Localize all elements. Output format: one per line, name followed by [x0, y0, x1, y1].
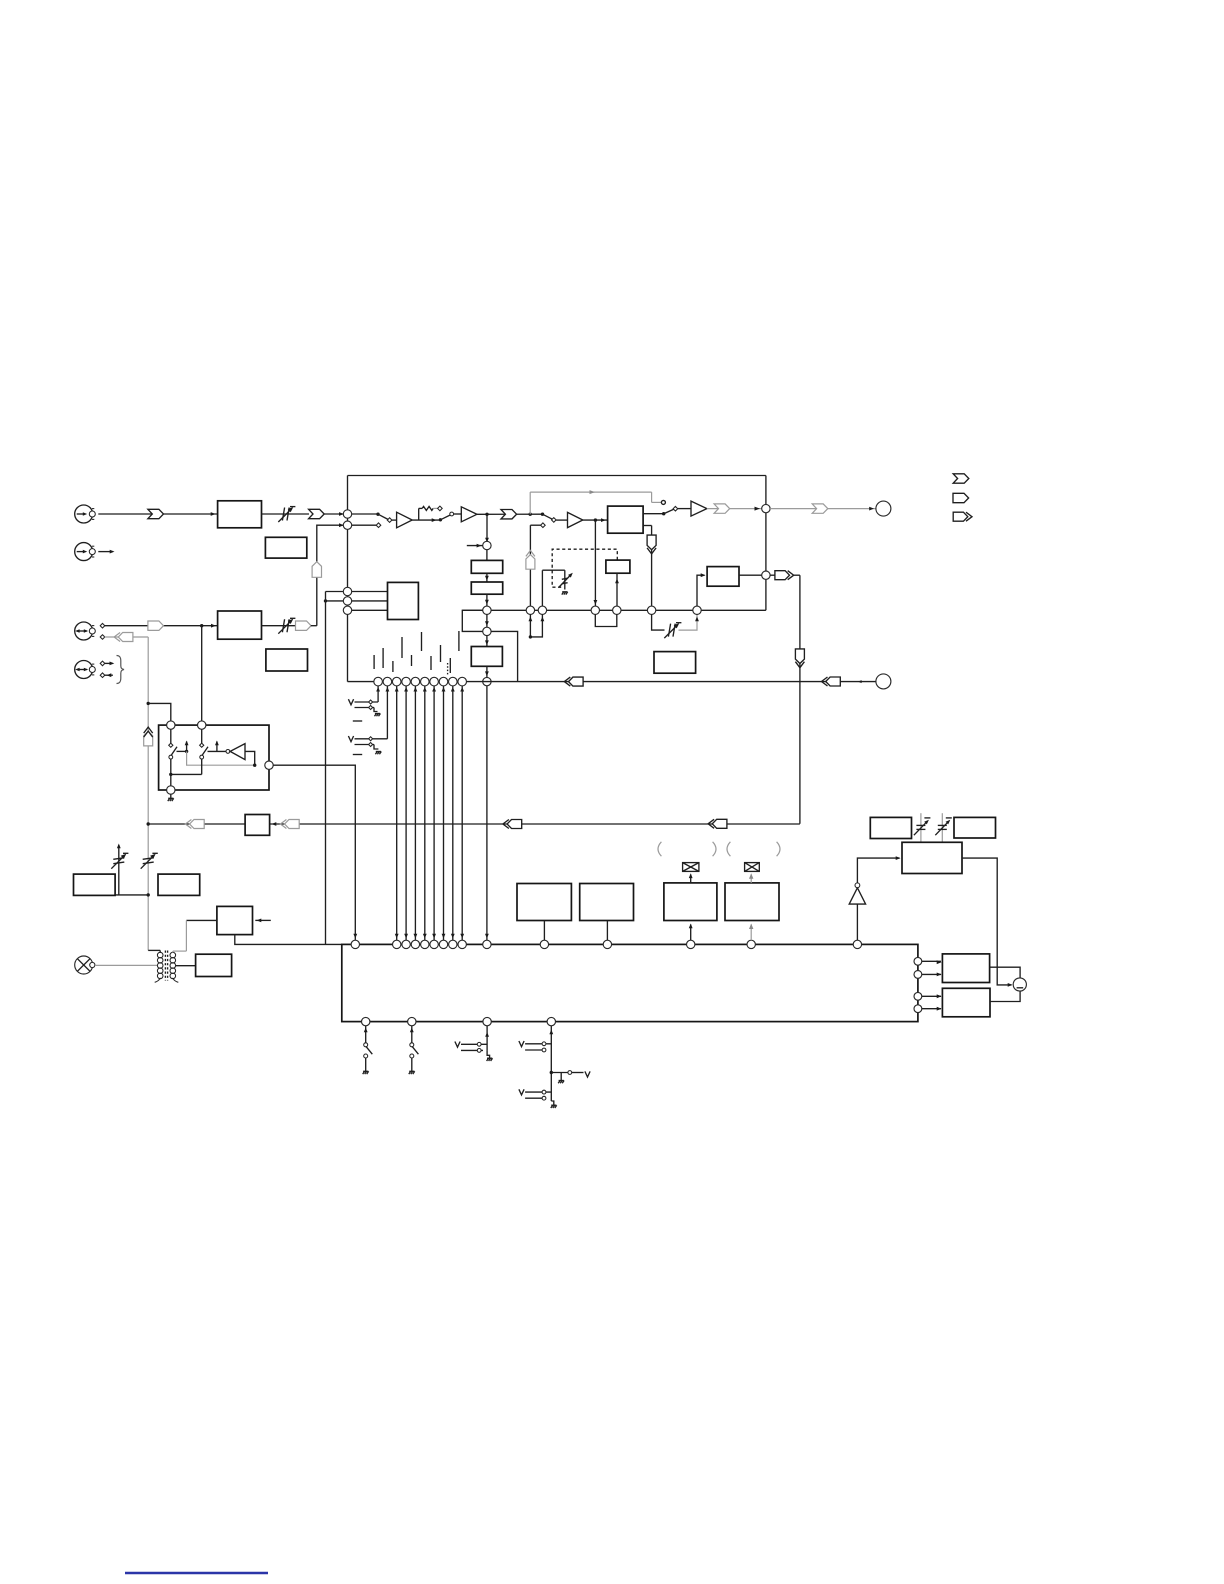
- block B4: [266, 649, 308, 671]
- output terminal T1: [876, 501, 891, 516]
- matrix sw2: [200, 729, 208, 759]
- bbox node t4: [421, 940, 429, 948]
- bbox node tB17: [747, 940, 755, 948]
- jack J2 stub: [98, 550, 114, 554]
- flag F9 down: [795, 649, 804, 668]
- wire to flag F8: [770, 574, 775, 576]
- block B6: [606, 560, 630, 573]
- wire B17 to X2: [749, 873, 753, 883]
- att loop left: [652, 615, 665, 631]
- block B14: [517, 884, 571, 921]
- flag F18: [708, 819, 727, 828]
- wire U1 out: [412, 518, 440, 522]
- flag F17: [503, 820, 522, 829]
- row681 up arrow 1: [376, 687, 380, 692]
- block B13: [196, 954, 232, 976]
- jack J3 top contact: [100, 623, 105, 628]
- row681 node c7: [430, 677, 439, 686]
- V switch 2 dash: [353, 754, 362, 756]
- wire to riser: [311, 625, 317, 627]
- att loop right: [679, 615, 699, 631]
- wire U3node to bus: [594, 520, 598, 606]
- bus wire 5: [432, 686, 436, 940]
- block B3: [218, 611, 262, 639]
- flag F19 up: [144, 727, 153, 746]
- wire to amp U3: [556, 519, 567, 521]
- wire mute drop: [529, 525, 531, 606]
- switch S2 throw: [450, 512, 454, 516]
- V switch 1: [348, 699, 378, 705]
- stub into V1: [467, 544, 483, 548]
- bus wire 3: [414, 686, 418, 940]
- switch S3 throw: [552, 518, 557, 523]
- bbox right node r3: [914, 992, 922, 1000]
- wire C1 to switch S1: [348, 513, 379, 515]
- switch S8 node: [550, 1071, 553, 1074]
- switch S6: [409, 1026, 419, 1074]
- V switch stub 2: [386, 686, 388, 739]
- flag F5: [812, 504, 828, 513]
- flag F1 on J1 wire: [148, 509, 164, 518]
- flag F10: [564, 677, 583, 686]
- bottom box: [342, 944, 918, 1021]
- node grey feedback tap: [529, 513, 532, 516]
- wire B3 to attenuator: [262, 625, 297, 627]
- block B16: [664, 883, 717, 921]
- record drop wire: [799, 575, 801, 824]
- legend flag type A: [953, 474, 969, 483]
- block B15: [580, 884, 634, 921]
- rail stub 2: [326, 600, 344, 602]
- grey feedback riser: [529, 492, 531, 514]
- switch S2 pole: [439, 515, 451, 522]
- jack J4 stub b: [105, 673, 113, 677]
- bbox right node r2: [914, 971, 922, 979]
- arrow into B9: [272, 822, 277, 826]
- row681 up arrow 2: [386, 687, 390, 692]
- switch box: [159, 725, 269, 790]
- wire amp base: [856, 904, 858, 940]
- bbox node t7: [449, 940, 457, 948]
- block DAC2: [471, 647, 502, 667]
- ground att mute: [562, 592, 568, 595]
- row681 node c6: [421, 677, 430, 686]
- op-amp U1: [397, 512, 413, 528]
- block B21: [954, 817, 996, 838]
- bbox right node r4: [914, 1005, 922, 1013]
- wire B12 left: [186, 920, 217, 951]
- bbox node t1: [393, 940, 401, 948]
- wire B14 stub: [543, 921, 545, 941]
- row2 stub diamond: [376, 523, 381, 528]
- switch S8 pair2: [519, 1089, 551, 1100]
- bbox node tV: [483, 940, 491, 948]
- inverter U5: [230, 744, 245, 760]
- big box top edge: [348, 475, 766, 477]
- rail node: [324, 599, 327, 602]
- att wire up: [117, 844, 121, 895]
- wire B5 out2: [643, 526, 652, 611]
- stub mark 4: [401, 637, 403, 658]
- row681 node c1: [374, 677, 383, 686]
- grey wire J3b: [105, 636, 149, 638]
- row681 node c4: [402, 677, 411, 686]
- mute loop node: [529, 635, 532, 638]
- big box right edge: [765, 476, 767, 611]
- grey feedback top wire: [530, 490, 651, 494]
- grey feedback contact: [661, 500, 665, 504]
- node box edge out2: [762, 571, 770, 579]
- bbox node tB15: [603, 940, 611, 948]
- stub mark 2: [382, 648, 384, 668]
- mute amp bubble: [855, 883, 860, 888]
- node trunk 1: [147, 702, 150, 705]
- legend flag type B: [953, 493, 969, 502]
- jack J4 contact b: [100, 673, 105, 678]
- matrix grey link: [187, 751, 255, 765]
- stub mark dotted: [447, 663, 449, 676]
- output terminal T2: [876, 674, 891, 689]
- V switch 1 ground: [374, 708, 380, 717]
- matrix sw2 drop: [201, 759, 203, 774]
- node box edge out1: [762, 504, 770, 512]
- input jack J1: [75, 505, 96, 523]
- flag F11: [148, 621, 164, 630]
- wire B12 bottom: [235, 935, 342, 945]
- wire r3 to B19: [922, 994, 942, 998]
- stub mark 3: [392, 661, 394, 672]
- node D1: [343, 587, 351, 595]
- variable attenuator AT4: [278, 618, 295, 633]
- parens marks: [658, 842, 780, 856]
- row681 node c3: [392, 677, 401, 686]
- switch S8 main: [549, 1026, 553, 1101]
- big box bottom edge segment left: [348, 609, 388, 611]
- transformer top right lead: [173, 951, 187, 953]
- wire J3 branch to box in2: [201, 626, 203, 721]
- variable attenuator AT5: [111, 853, 128, 868]
- jack J3 bottom contact: [100, 635, 105, 640]
- riser to row2: [317, 523, 344, 625]
- wire B19 out: [990, 991, 1020, 1002]
- jack J4 brace: [117, 656, 125, 684]
- block B5: [608, 506, 644, 533]
- wire B7 out: [739, 574, 762, 576]
- matrix sw2 bar: [215, 741, 219, 752]
- resistor R1: [419, 506, 438, 510]
- att arrow b: [935, 818, 952, 835]
- xbox X1: [683, 863, 699, 872]
- bus wire 7: [451, 686, 455, 940]
- node V2: [483, 627, 491, 635]
- V switch stub 1: [377, 686, 379, 702]
- variable attenuator AT3: [664, 623, 681, 638]
- node trunk 3: [147, 893, 150, 896]
- switch S3 pole: [541, 513, 553, 520]
- wire r2 to B18: [922, 973, 942, 977]
- wire U2 node drop: [485, 514, 489, 545]
- wire V to bottom box: [485, 686, 489, 940]
- bbox node tAmp: [853, 940, 861, 948]
- rail vertical: [325, 592, 327, 945]
- stub into B12: [255, 919, 270, 923]
- switch S8 ground: [551, 1101, 557, 1108]
- dotted box: [552, 549, 617, 587]
- matrix sw1: [169, 729, 177, 759]
- wire r4 to B19: [922, 1007, 942, 1011]
- wire to node C1: [324, 512, 344, 516]
- wire U3 to B5: [583, 518, 608, 522]
- wire B22 out: [962, 858, 1013, 987]
- jack J4 stub a: [105, 662, 115, 666]
- switch S8 branch: [551, 1071, 590, 1084]
- V switch 1 dash: [353, 720, 362, 722]
- grey trunk down: [147, 637, 149, 950]
- row681 up arrow 5: [414, 687, 418, 692]
- grey lamp wire: [95, 964, 157, 966]
- node D3: [343, 606, 351, 614]
- wire B16 to X1: [689, 873, 693, 883]
- minus terminal: [1013, 978, 1026, 991]
- input jack J2: [75, 543, 96, 561]
- V switch 2b: [355, 743, 375, 747]
- jack J4 contact a: [100, 661, 105, 666]
- mute amp U6: [849, 888, 865, 904]
- wire U2 out: [477, 513, 543, 515]
- node bus V: [483, 606, 491, 614]
- wire to att mute: [542, 570, 564, 589]
- wire B10 link: [115, 894, 148, 896]
- row681 node c9: [449, 677, 458, 686]
- op-amp U3: [568, 512, 583, 527]
- bbox node t0: [351, 940, 359, 948]
- box out node bottom: [167, 786, 175, 794]
- wire M2 up: [541, 570, 543, 606]
- row681 node c8: [439, 677, 448, 686]
- node bus A1: [647, 606, 655, 614]
- node bus B6: [613, 606, 621, 614]
- rail stub 1: [326, 591, 344, 593]
- switch S5: [363, 1026, 373, 1074]
- row681 up arrow 4: [404, 687, 408, 692]
- matrix sw2 link: [208, 750, 227, 752]
- inverter out: [245, 751, 256, 767]
- row681 node c2: [383, 677, 392, 686]
- node bus M1: [526, 606, 534, 614]
- mute loop: [529, 615, 545, 637]
- wire bus to B7: [697, 573, 706, 606]
- flag F6 down: [647, 535, 656, 554]
- bus wire 4: [423, 686, 427, 940]
- wire r1 to B18: [922, 960, 942, 964]
- big box left rail: [347, 476, 349, 682]
- bbox node b2: [408, 1017, 416, 1025]
- stub mark 7: [430, 656, 432, 670]
- node row681 V: [483, 677, 491, 685]
- legend flag type C: [953, 512, 972, 521]
- flag F14: [114, 633, 133, 642]
- wire to amp U4: [678, 508, 691, 510]
- bypass elbow left: [462, 610, 482, 631]
- bbox node t2: [402, 940, 410, 948]
- resistor bypass riser: [418, 508, 420, 520]
- block DAC: [388, 582, 419, 619]
- grey att wire a: [920, 813, 922, 842]
- variable attenuator AT1: [278, 507, 295, 522]
- bus wire 8: [460, 686, 464, 940]
- bbox node tB14: [540, 940, 548, 948]
- bypass elbow right: [491, 631, 517, 681]
- stub mark 10: [458, 631, 460, 651]
- flag F16: [280, 820, 299, 829]
- att arrow a: [914, 818, 931, 835]
- node C2: [343, 521, 351, 529]
- node U3 out: [594, 518, 597, 521]
- grey wire to output 1: [770, 507, 876, 511]
- switch S4 throw: [673, 506, 678, 511]
- bbox node b3: [483, 1017, 491, 1025]
- inverter bubble: [226, 750, 230, 754]
- row681 wire: [348, 680, 876, 683]
- bbox node b4: [547, 1017, 555, 1025]
- box ground: [168, 794, 174, 801]
- switch S7: [455, 1026, 493, 1061]
- wire J3 to B3: [105, 624, 218, 628]
- block B10: [74, 874, 116, 895]
- node U2 out: [485, 513, 488, 516]
- wire B5 out1: [643, 513, 664, 515]
- row824 wire: [148, 823, 800, 825]
- transformer TR1: [155, 951, 179, 983]
- wire to amp U2: [454, 513, 462, 515]
- wire bus V down: [485, 615, 489, 628]
- node bus A2: [693, 606, 701, 614]
- row681 up arrow 8: [442, 687, 446, 692]
- transformer to B13: [176, 965, 196, 967]
- row681 up arrow 7: [432, 687, 436, 692]
- op-amp U4: [691, 501, 707, 516]
- flag F8: [775, 571, 794, 580]
- wire amp to B22: [857, 856, 900, 883]
- matrix sw1 drop: [170, 759, 172, 774]
- wire BV2 down: [485, 594, 489, 606]
- row681 up arrow 10: [460, 687, 464, 692]
- wire B18 out: [990, 967, 1021, 978]
- bus wire 6: [442, 686, 446, 940]
- block B7: [707, 567, 739, 587]
- bus wire 1: [395, 686, 399, 940]
- row681 up arrow 9: [451, 687, 455, 692]
- block B18: [942, 954, 989, 983]
- bbox node t6: [439, 940, 447, 948]
- matrix sw1 link: [177, 750, 189, 753]
- stub mark 1: [373, 655, 375, 669]
- matrix out drop: [170, 774, 172, 785]
- block B22: [902, 842, 962, 873]
- wire BV1 to BV2: [485, 573, 489, 582]
- V switch 1b: [355, 706, 375, 710]
- variable attenuator AT6: [141, 853, 158, 868]
- wire V1 to BV1: [486, 550, 488, 561]
- row2 stub to S1: [348, 524, 377, 526]
- wire to amp U1: [392, 519, 397, 521]
- V switch 2 ground: [374, 745, 381, 755]
- bbox node t8: [458, 940, 466, 948]
- grey feedback drop: [652, 492, 662, 502]
- row681 up arrow 6: [423, 687, 427, 692]
- block B19: [942, 988, 990, 1017]
- block BV2: [471, 582, 502, 594]
- wire trunk to box in1: [148, 703, 171, 721]
- grey att wire b: [941, 813, 943, 842]
- stub mark 5: [411, 655, 413, 666]
- block B8: [654, 652, 696, 674]
- flag F12: [296, 621, 312, 630]
- node D2: [343, 597, 351, 605]
- block B1: [218, 501, 262, 528]
- block B9: [245, 815, 270, 836]
- switch S3 alt throw: [530, 523, 545, 528]
- box out node right: [265, 761, 273, 769]
- wire B6 down: [615, 573, 619, 606]
- flag F2: [309, 509, 325, 518]
- box in2 node: [198, 721, 206, 729]
- block B17: [725, 883, 779, 921]
- input jack J3: [75, 622, 96, 640]
- wire B17 stub: [749, 924, 753, 941]
- stub mark 6: [421, 632, 423, 651]
- bbox node tB16: [687, 940, 695, 948]
- footer rule: [125, 1572, 268, 1575]
- lamp jack J5: [75, 956, 95, 974]
- block B12: [217, 906, 253, 934]
- matrix sw1 bar: [185, 741, 189, 752]
- block BV1: [471, 560, 502, 573]
- xbox X2: [745, 863, 760, 872]
- block B11: [158, 874, 200, 895]
- wire flag to drop: [794, 574, 800, 576]
- wire DAC2 down: [485, 666, 489, 677]
- variable attenuator AT2: [559, 573, 573, 588]
- bbox node b1: [362, 1017, 370, 1025]
- wire B16 stub: [689, 924, 693, 941]
- op-amp U2: [461, 507, 477, 522]
- U loop: [595, 615, 617, 627]
- wire B15 stub: [606, 921, 608, 941]
- row681 up arrow 3: [395, 687, 399, 692]
- node C1: [343, 510, 351, 518]
- wire B1 to attenuator: [262, 513, 310, 515]
- matrix common: [169, 773, 202, 776]
- node V1: [483, 541, 491, 549]
- input jack J4: [75, 661, 96, 679]
- wire box to bottom box: [273, 765, 357, 940]
- DAC input wires: [352, 592, 388, 601]
- flag F3: [501, 510, 517, 519]
- switch S4 pole: [662, 509, 674, 515]
- stub mark 9: [449, 658, 451, 673]
- switch S1 throw: [387, 518, 392, 523]
- node trunk 2: [147, 822, 150, 825]
- row681 node c10: [458, 677, 467, 686]
- bbox right node r1: [914, 957, 922, 965]
- flag F20: [822, 677, 841, 686]
- wire V2 to DAC2: [485, 636, 489, 647]
- grey wire U4 out: [707, 507, 766, 511]
- wire J1 to B1: [98, 512, 217, 516]
- row681 node c5: [411, 677, 420, 686]
- node J3 branch: [200, 624, 203, 627]
